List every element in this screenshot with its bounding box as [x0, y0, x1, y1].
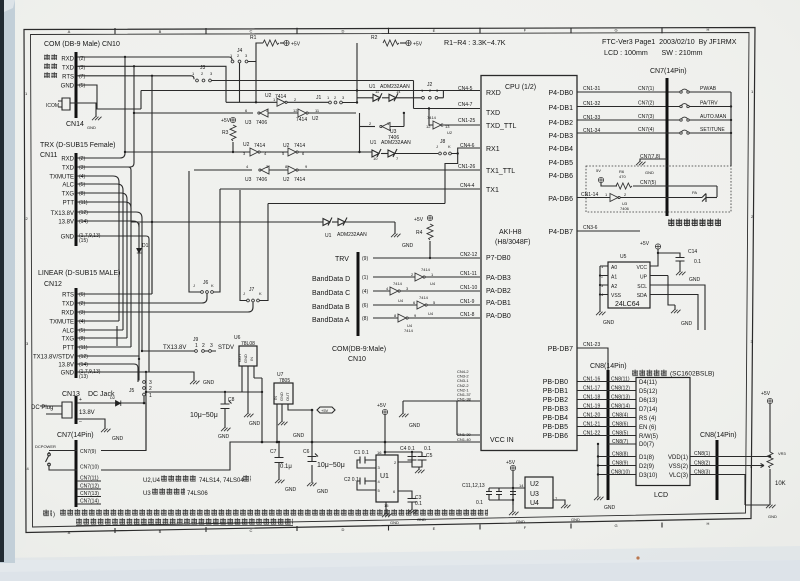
svg-text:(14): (14): [79, 219, 88, 225]
wire P4-DB0 row: [577, 91, 680, 93]
ic U1 ADM232: [376, 455, 398, 502]
svg-text:G: G: [614, 523, 617, 528]
svg-text:TRV: TRV: [335, 256, 349, 263]
wire PB rows: [577, 382, 636, 436]
svg-text:GND: GND: [279, 392, 284, 401]
svg-text:E: E: [433, 526, 436, 531]
svg-text:CN7(10): CN7(10): [80, 465, 99, 471]
svg-text:VCC: VCC: [636, 265, 647, 271]
svg-text:ADM232AAN: ADM232AAN: [381, 140, 411, 146]
svg-text:P4-DB1: P4-DB1: [548, 105, 573, 112]
svg-text:J: J: [243, 291, 245, 296]
svg-text:ALC: ALC: [62, 183, 74, 189]
svg-text:A2: A2: [611, 284, 617, 290]
svg-text:RTS: RTS: [62, 293, 74, 299]
svg-text:7414: 7414: [254, 143, 265, 149]
svg-text:U2: U2: [530, 481, 539, 488]
svg-text:J: J: [193, 283, 195, 288]
svg-text:(12): (12): [79, 354, 88, 360]
svg-text:5V: 5V: [596, 168, 601, 173]
PA switch: [702, 194, 706, 203]
jp アカ シロ クロ: [44, 54, 58, 61]
svg-text:EN (6): EN (6): [639, 425, 656, 431]
svg-text:GND: GND: [689, 277, 701, 283]
svg-text:U3: U3: [245, 177, 252, 183]
wire P4-DB7 row: [577, 230, 640, 232]
zone ticks top: [115, 27, 662, 34]
svg-text:AKI-H8: AKI-H8: [499, 229, 522, 236]
svg-text:VDD(1): VDD(1): [668, 455, 688, 461]
svg-text:PB-DB4: PB-DB4: [543, 415, 568, 422]
svg-text:U6: U6: [234, 335, 241, 341]
svg-text:R3: R3: [222, 130, 229, 136]
VDD VSS VLC rows: [694, 451, 710, 476]
svg-text:CN11: CN11: [40, 152, 57, 159]
svg-text:SCL: SCL: [637, 284, 647, 290]
svg-text:13.8V: 13.8V: [58, 220, 74, 226]
diode D2: [77, 402, 144, 404]
svg-text:U2: U2: [447, 130, 453, 135]
op CPU box U? AKI-H8: [481, 76, 577, 451]
wire CN1-38 long: [403, 401, 480, 435]
svg-text:+5V: +5V: [321, 408, 329, 413]
border frame outer: [24, 28, 755, 533]
svg-text:TXMUTE: TXMUTE: [49, 320, 74, 326]
svg-text:AUTO.MAN: AUTO.MAN: [700, 114, 727, 120]
CN7 right vertical: [730, 92, 732, 166]
svg-text:PB-DB2: PB-DB2: [543, 397, 568, 404]
zone letters top: [68, 27, 710, 34]
svg-text:P4-DB4: P4-DB4: [548, 146, 573, 153]
wire TXD CN10: [77, 66, 226, 102]
svg-text:12: 12: [426, 124, 431, 129]
svg-text:C8: C8: [228, 397, 235, 403]
svg-text:SDA: SDA: [637, 293, 648, 299]
svg-text:+5V: +5V: [377, 403, 387, 409]
wire U1 pin2 top rail: [385, 452, 422, 462]
svg-text:RXD: RXD: [61, 57, 74, 63]
svg-text:C4 0.1: C4 0.1: [400, 446, 415, 452]
svg-text:GND: GND: [218, 434, 230, 440]
connector CN12 body: [75, 288, 78, 378]
svg-text:J8: J8: [440, 139, 446, 145]
wire RXD CN10: [77, 57, 232, 62]
svg-text:PB-DB6: PB-DB6: [543, 433, 568, 440]
svg-text:CN1-9: CN1-9: [460, 299, 475, 305]
svg-text:GND: GND: [571, 517, 580, 522]
rail branch +5V down to C6: [311, 410, 313, 456]
svg-text:H: H: [707, 27, 710, 32]
svg-text:P4-DB6: P4-DB6: [548, 173, 573, 180]
+5V into U1 pin16: [384, 414, 386, 455]
svg-text:U2: U2: [283, 177, 290, 183]
svg-text:1: 1: [195, 343, 198, 349]
svg-text:GND: GND: [681, 321, 693, 327]
CPU left tiny port labels: [457, 369, 472, 442]
svg-text:P4-DB7: P4-DB7: [548, 229, 573, 236]
wire P4-DB3 row: [577, 132, 680, 134]
svg-text:SET/TUNE: SET/TUNE: [700, 127, 725, 133]
wire TRV row: [373, 257, 480, 259]
svg-text:CN1-26: CN1-26: [458, 164, 475, 170]
svg-text:10K: 10K: [775, 481, 786, 487]
svg-text:PA-DB0: PA-DB0: [486, 313, 511, 320]
svg-text:P4-DB2: P4-DB2: [548, 120, 573, 127]
svg-text:U1: U1: [325, 233, 332, 239]
svg-text:D5(12): D5(12): [639, 389, 657, 395]
svg-text:D4(11): D4(11): [639, 380, 657, 386]
wire CN7(9) to D2: [101, 403, 146, 451]
gate U2 7414 b: [293, 108, 320, 113]
svg-text:RTS: RTS: [62, 75, 74, 81]
svg-text:GND: GND: [61, 371, 75, 377]
svg-text:CN7(5): CN7(5): [640, 180, 656, 186]
svg-text:PW/AB: PW/AB: [700, 86, 717, 92]
svg-text:A0: A0: [611, 265, 617, 271]
gate U3 7406 c: [246, 164, 269, 169]
svg-text:GND: GND: [293, 433, 305, 439]
svg-text:E: E: [433, 28, 436, 33]
svg-text:IN: IN: [249, 357, 254, 361]
svg-text:LINEAR (D-SUB15 MALE): LINEAR (D-SUB15 MALE): [38, 270, 120, 277]
svg-text:U4: U4: [430, 281, 436, 286]
svg-text:R/W(5): R/W(5): [639, 434, 658, 440]
svg-text:LCD : 100mm SW : 210mm: LCD : 100mm SW : 210mm: [604, 49, 703, 57]
svg-text:GND: GND: [645, 170, 654, 175]
connector CN10 body: [75, 52, 78, 118]
svg-text:VSS(2): VSS(2): [669, 464, 688, 470]
wire P4-DB1 row: [577, 106, 680, 108]
svg-text:ALC: ALC: [62, 329, 74, 335]
svg-text:+: +: [79, 397, 82, 403]
svg-text:COM(DB-9:Male): COM(DB-9:Male): [332, 346, 386, 353]
svg-text:GND: GND: [285, 487, 297, 493]
svg-text:CN7(3): CN7(3): [638, 114, 654, 120]
svg-text:(6): (6): [79, 292, 85, 298]
svg-text:14: 14: [396, 89, 401, 94]
svg-text:0.1: 0.1: [694, 259, 701, 265]
svg-text:C: C: [250, 528, 253, 533]
svg-text:U2,U4: U2,U4: [143, 478, 161, 484]
svg-text:GND: GND: [112, 436, 124, 442]
svg-text:A: A: [68, 530, 71, 535]
svg-text:7406: 7406: [620, 206, 630, 211]
svg-text:16: 16: [377, 450, 382, 455]
gate into CPU TXD_TTL: [429, 109, 433, 126]
svg-text:P4-DB0: P4-DB0: [548, 90, 573, 97]
svg-text:J5: J5: [129, 388, 135, 394]
wire RTS CN10: [77, 76, 194, 80]
svg-text:PA/TRV: PA/TRV: [700, 101, 718, 107]
svg-text:(1): (1): [362, 275, 368, 281]
svg-text:K: K: [259, 291, 262, 296]
svg-text:D6(13): D6(13): [639, 398, 657, 404]
svg-text:7414: 7414: [294, 143, 305, 149]
svg-text:(5): (5): [79, 182, 85, 188]
svg-text:J: J: [436, 144, 438, 149]
svg-text:15: 15: [384, 503, 389, 508]
+5V flag: [311, 409, 314, 412]
svg-text:CN1-8: CN1-8: [460, 312, 475, 318]
svg-text:C14: C14: [688, 249, 697, 255]
gate U2 7414 e: [285, 164, 308, 169]
svg-text:PTT: PTT: [63, 346, 75, 352]
svg-text:CN12: CN12: [44, 281, 62, 288]
svg-text:CN7(1): CN7(1): [638, 86, 654, 92]
svg-text:A1: A1: [611, 275, 617, 281]
svg-text:U4: U4: [530, 500, 539, 507]
wires CN11: [77, 57, 125, 158]
svg-text:STDV: STDV: [218, 345, 234, 351]
svg-text:+5V: +5V: [640, 241, 650, 247]
svg-text:D: D: [342, 29, 345, 34]
svg-text:TXMUTE: TXMUTE: [49, 175, 74, 181]
13.8V rail y392: [146, 387, 262, 451]
svg-text:C7: C7: [270, 449, 277, 455]
svg-text:CN3-6: CN3-6: [583, 225, 598, 231]
svg-text:U3: U3: [143, 491, 151, 497]
svg-text:(5): (5): [79, 83, 85, 89]
connector CN8 bus: [607, 370, 610, 500]
svg-text:7414: 7414: [421, 267, 431, 272]
svg-text:GND: GND: [87, 125, 96, 130]
svg-text:7414: 7414: [294, 177, 305, 183]
svg-text:VCC IN: VCC IN: [490, 437, 514, 444]
scanner bed bottom: [0, 546, 800, 581]
24LC64 SCL SDA wires: [650, 276, 705, 331]
svg-text:GND: GND: [409, 423, 421, 429]
svg-text:U3: U3: [245, 120, 252, 126]
svg-text:BandData A: BandData A: [312, 317, 350, 324]
svg-text:(11): (11): [79, 200, 88, 206]
svg-text:C5: C5: [426, 453, 433, 459]
svg-text:7414: 7414: [419, 295, 429, 300]
svg-text:TX1: TX1: [486, 187, 499, 194]
svg-text:D2(9): D2(9): [639, 464, 654, 470]
svg-text:CN14: CN14: [66, 121, 84, 128]
svg-text:PB-DB5: PB-DB5: [543, 424, 568, 431]
svg-text:RXD: RXD: [61, 157, 74, 163]
svg-text:CN1-40: CN1-40: [457, 437, 472, 442]
svg-text:CN4-4: CN4-4: [460, 183, 475, 189]
svg-text:TX1_TTL: TX1_TTL: [486, 168, 515, 175]
svg-text:R2: R2: [371, 35, 378, 41]
svg-text:D2: D2: [110, 395, 116, 400]
svg-text:RX1: RX1: [486, 146, 500, 153]
svg-text:(4): (4): [79, 174, 85, 180]
svg-text:14: 14: [519, 483, 524, 488]
svg-text:VLC(3): VLC(3): [669, 473, 688, 479]
svg-text:D1(8): D1(8): [639, 455, 654, 461]
connector CN11 body: [75, 153, 78, 246]
svg-text:CN7(9): CN7(9): [80, 449, 96, 455]
svg-text:GND: GND: [604, 505, 616, 511]
24LC64 VCC +5V: [650, 249, 658, 266]
svg-text:+5V: +5V: [506, 460, 516, 466]
svg-text:2: 2: [202, 343, 205, 349]
TRV BandData bus: [357, 252, 360, 336]
svg-text:TXD: TXD: [62, 302, 75, 308]
svg-text:2: 2: [149, 386, 152, 392]
wire CN8 7-10 rows: [598, 444, 636, 475]
svg-text:GND: GND: [61, 235, 75, 241]
svg-text:K: K: [448, 144, 451, 149]
svg-text:12: 12: [293, 108, 298, 113]
svg-text:24LC64: 24LC64: [615, 301, 640, 308]
svg-text:RS (4): RS (4): [639, 416, 656, 422]
wire GND CN10: [77, 85, 141, 109]
svg-text:0.1μ: 0.1μ: [280, 464, 292, 470]
svg-text:TXG: TXG: [62, 192, 75, 198]
svg-text:K: K: [211, 283, 214, 288]
svg-text:D3(10): D3(10): [639, 473, 657, 479]
wire CN7(10) rail to CPU VCC: [101, 442, 480, 470]
orange dot: [636, 556, 639, 559]
svg-text:+5V: +5V: [414, 217, 424, 223]
svg-text:7406: 7406: [256, 120, 267, 126]
svg-text:R1~R4 : 3.3K~4.7K: R1~R4 : 3.3K~4.7K: [444, 39, 506, 47]
svg-text:OUT: OUT: [285, 392, 290, 401]
svg-text:(14): (14): [79, 362, 88, 368]
svg-text:P7-DB0: P7-DB0: [486, 255, 511, 262]
svg-text:–: –: [79, 419, 82, 425]
GND drop at CN12: [146, 372, 194, 381]
svg-text:ICOM: ICOM: [46, 103, 59, 109]
svg-text:CN7(4): CN7(4): [638, 127, 654, 133]
svg-text:U1: U1: [370, 140, 377, 146]
svg-text:13.8V: 13.8V: [79, 410, 95, 416]
capacitor C14: [658, 253, 685, 272]
svg-text:CN10: CN10: [348, 356, 366, 363]
svg-text:GND: GND: [402, 243, 414, 249]
svg-text:PA-DB6: PA-DB6: [548, 196, 573, 203]
svg-text:U2: U2: [243, 142, 250, 148]
svg-text:TXD_TTL: TXD_TTL: [486, 123, 516, 130]
svg-text:U1: U1: [380, 473, 389, 480]
gate U3 7406 b: [359, 113, 361, 152]
svg-text:(8): (8): [79, 336, 85, 342]
svg-text:G: G: [614, 28, 617, 33]
svg-text:10μ~50μ: 10μ~50μ: [317, 462, 345, 469]
svg-text:PB-DB1: PB-DB1: [543, 388, 568, 395]
wire PB-DB7 row: [577, 348, 608, 370]
svg-text:(SC1602BSLB): (SC1602BSLB): [670, 371, 714, 378]
svg-text:PTT: PTT: [63, 201, 75, 207]
svg-text:D: D: [342, 527, 345, 532]
svg-text:CN7(2): CN7(2): [638, 101, 654, 107]
svg-text:B: B: [159, 529, 162, 534]
svg-text:CN7(14Pin): CN7(14Pin): [57, 432, 94, 439]
svg-text:7414: 7414: [296, 117, 307, 123]
svg-text:7414: 7414: [427, 115, 437, 120]
svg-text:(2): (2): [79, 301, 85, 307]
svg-text:J7: J7: [249, 287, 255, 293]
svg-text:CN7(14Pin): CN7(14Pin): [650, 68, 687, 75]
svg-text:COM (DB-9 Male) CN10: COM (DB-9 Male) CN10: [44, 41, 120, 48]
svg-text:BandData C: BandData C: [312, 290, 350, 297]
svg-text:TXG: TXG: [62, 337, 75, 343]
svg-text:C6: C6: [303, 449, 310, 455]
svg-text:3: 3: [210, 343, 213, 349]
svg-text:(3): (3): [79, 310, 85, 316]
LCD header: [632, 369, 667, 377]
connector CN7 left body: [75, 440, 78, 507]
svg-text:+5V: +5V: [413, 42, 423, 48]
svg-text:UP: UP: [640, 275, 648, 281]
svg-text:TRX (D-SUB15 Female): TRX (D-SUB15 Female): [40, 142, 115, 149]
svg-text:CPU (1/2): CPU (1/2): [505, 84, 536, 91]
svg-text:(13): (13): [79, 374, 88, 380]
DCPOWER switch: [49, 451, 77, 471]
svg-text:GND: GND: [417, 517, 426, 522]
svg-text:(2): (2): [79, 156, 85, 162]
svg-text:PA-DB2: PA-DB2: [486, 288, 511, 295]
svg-text:D0(7): D0(7): [639, 442, 654, 448]
capacitor C3: [398, 491, 412, 510]
svg-text:C11,12,13: C11,12,13: [462, 483, 485, 489]
svg-text:): ): [53, 512, 55, 518]
svg-text:(8): (8): [79, 191, 85, 197]
svg-text:13.8V: 13.8V: [58, 363, 74, 369]
svg-text:PA-DB3: PA-DB3: [486, 275, 511, 282]
svg-text:7406: 7406: [256, 177, 267, 183]
svg-text:0.1: 0.1: [476, 500, 483, 506]
svg-text:U5: U5: [620, 254, 627, 260]
svg-text:1: 1: [149, 393, 152, 399]
svg-text:74LS14, 74LS04: 74LS14, 74LS04: [199, 478, 244, 484]
svg-text:470: 470: [619, 174, 626, 179]
connector CN7 right bus: [666, 78, 669, 216]
svg-text:BandData D: BandData D: [312, 276, 350, 283]
svg-text:TX13.8V: TX13.8V: [51, 211, 74, 217]
note jp line1: [43, 509, 52, 517]
svg-text:OUT: OUT: [237, 353, 242, 362]
svg-text:PA-DB1: PA-DB1: [486, 300, 511, 307]
svg-text:RXD: RXD: [61, 311, 74, 317]
ic LCD box: [636, 378, 690, 486]
svg-text:GND: GND: [243, 354, 248, 363]
svg-text:0.1: 0.1: [424, 446, 431, 452]
svg-text:R4: R4: [416, 230, 423, 236]
svg-text:(11): (11): [79, 345, 88, 351]
svg-text:P4-DB3: P4-DB3: [548, 133, 573, 140]
svg-text:U3: U3: [530, 491, 539, 498]
zone letters bottom: [68, 521, 710, 535]
svg-text:7414: 7414: [404, 328, 414, 333]
svg-text:PA: PA: [692, 190, 697, 195]
svg-text:ADM232AAN: ADM232AAN: [337, 232, 367, 238]
note jp line2: [76, 518, 293, 526]
svg-text:PB-DB3: PB-DB3: [543, 406, 568, 413]
wires CN12: [77, 293, 152, 295]
svg-text:(6): (6): [362, 303, 368, 309]
svg-text:CN1-10: CN1-10: [460, 285, 477, 291]
svg-text:CN1-11: CN1-11: [460, 271, 477, 277]
switch PW/AB: [680, 89, 689, 93]
svg-text:+5V: +5V: [291, 42, 301, 48]
svg-text:U4: U4: [428, 311, 434, 316]
svg-text:FTC-Ver3 Page1 2003/02/10 By: FTC-Ver3 Page1 2003/02/10 By JF1RMX: [602, 38, 737, 46]
svg-text:CN1-31: CN1-31: [583, 86, 600, 92]
svg-text:D1: D1: [142, 243, 149, 249]
svg-text:RXD: RXD: [486, 90, 501, 97]
svg-text:7414: 7414: [393, 281, 403, 286]
svg-text:(4): (4): [79, 319, 85, 325]
svg-text:LCD: LCD: [654, 492, 668, 499]
paper edge light: [15, 0, 26, 556]
svg-text:DCPOWER: DCPOWER: [35, 444, 56, 449]
wire ICOM to CPU RXD row: [141, 91, 480, 110]
